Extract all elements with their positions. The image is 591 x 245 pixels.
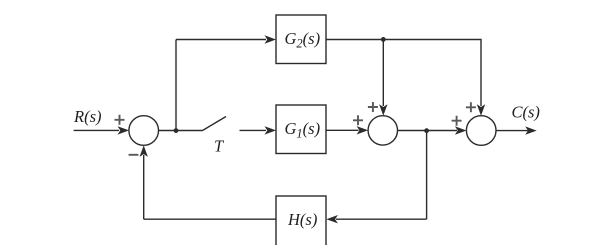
- switch T blade: [203, 117, 227, 131]
- arrowhead into H(s): [326, 215, 338, 223]
- plus sign summer2 top: [368, 102, 378, 112]
- block G1: [276, 105, 326, 154]
- arrowhead into summer2 left: [357, 126, 369, 134]
- block H: [276, 196, 326, 245]
- svg-text:G2(s): G2(s): [285, 29, 321, 51]
- svg-text:G1(s): G1(s): [285, 119, 321, 141]
- svg-text:C(s): C(s): [512, 103, 540, 122]
- arrowhead into summer2 top: [379, 104, 387, 116]
- junction node B: [381, 37, 386, 42]
- arrowhead into summer1: [118, 126, 130, 134]
- wire summer2 to summer3: [398, 130, 458, 132]
- svg-text:R(s): R(s): [73, 107, 102, 126]
- summer 1 circle: [129, 116, 159, 146]
- wire node C down to feedback rail: [426, 131, 428, 220]
- plus sign summer3 left: [452, 116, 462, 126]
- arrowhead feedback into summer1 bottom: [140, 145, 148, 157]
- wire node A up to top rail: [175, 40, 177, 131]
- wire summer3 output C(s): [496, 130, 528, 132]
- wire R(s) input to summer 1: [74, 129, 119, 131]
- wire G2 output rail: [326, 40, 481, 107]
- wire H output to left: [144, 218, 276, 220]
- wire feedback rail to H input: [336, 218, 427, 220]
- arrowhead into summer3 top: [477, 104, 485, 116]
- summer 2 circle: [368, 116, 397, 145]
- arrowhead C(s) output: [525, 126, 537, 134]
- plus sign summer2 left: [353, 115, 363, 125]
- wire summer1 right to switch: [159, 130, 203, 132]
- wire node B down to summer 2: [382, 40, 384, 107]
- wire switch to G1: [240, 129, 267, 131]
- plus sign summer1 input: [115, 115, 125, 125]
- plus sign summer3 top: [466, 102, 476, 112]
- wire G1 output to summer 2: [326, 129, 359, 131]
- junction node C: [424, 128, 429, 133]
- summer 3 circle: [466, 116, 496, 146]
- junction node A: [174, 128, 179, 133]
- svg-text:H(s): H(s): [287, 210, 317, 229]
- block G2: [276, 15, 326, 64]
- wire top rail to G2 input: [176, 39, 266, 41]
- wire feedback up to summer 1: [143, 155, 145, 219]
- arrowhead into summer3 left: [455, 126, 467, 134]
- arrowhead into G1: [265, 126, 277, 134]
- minus sign summer1 feedback: [129, 154, 139, 156]
- arrowhead into G2: [265, 35, 277, 43]
